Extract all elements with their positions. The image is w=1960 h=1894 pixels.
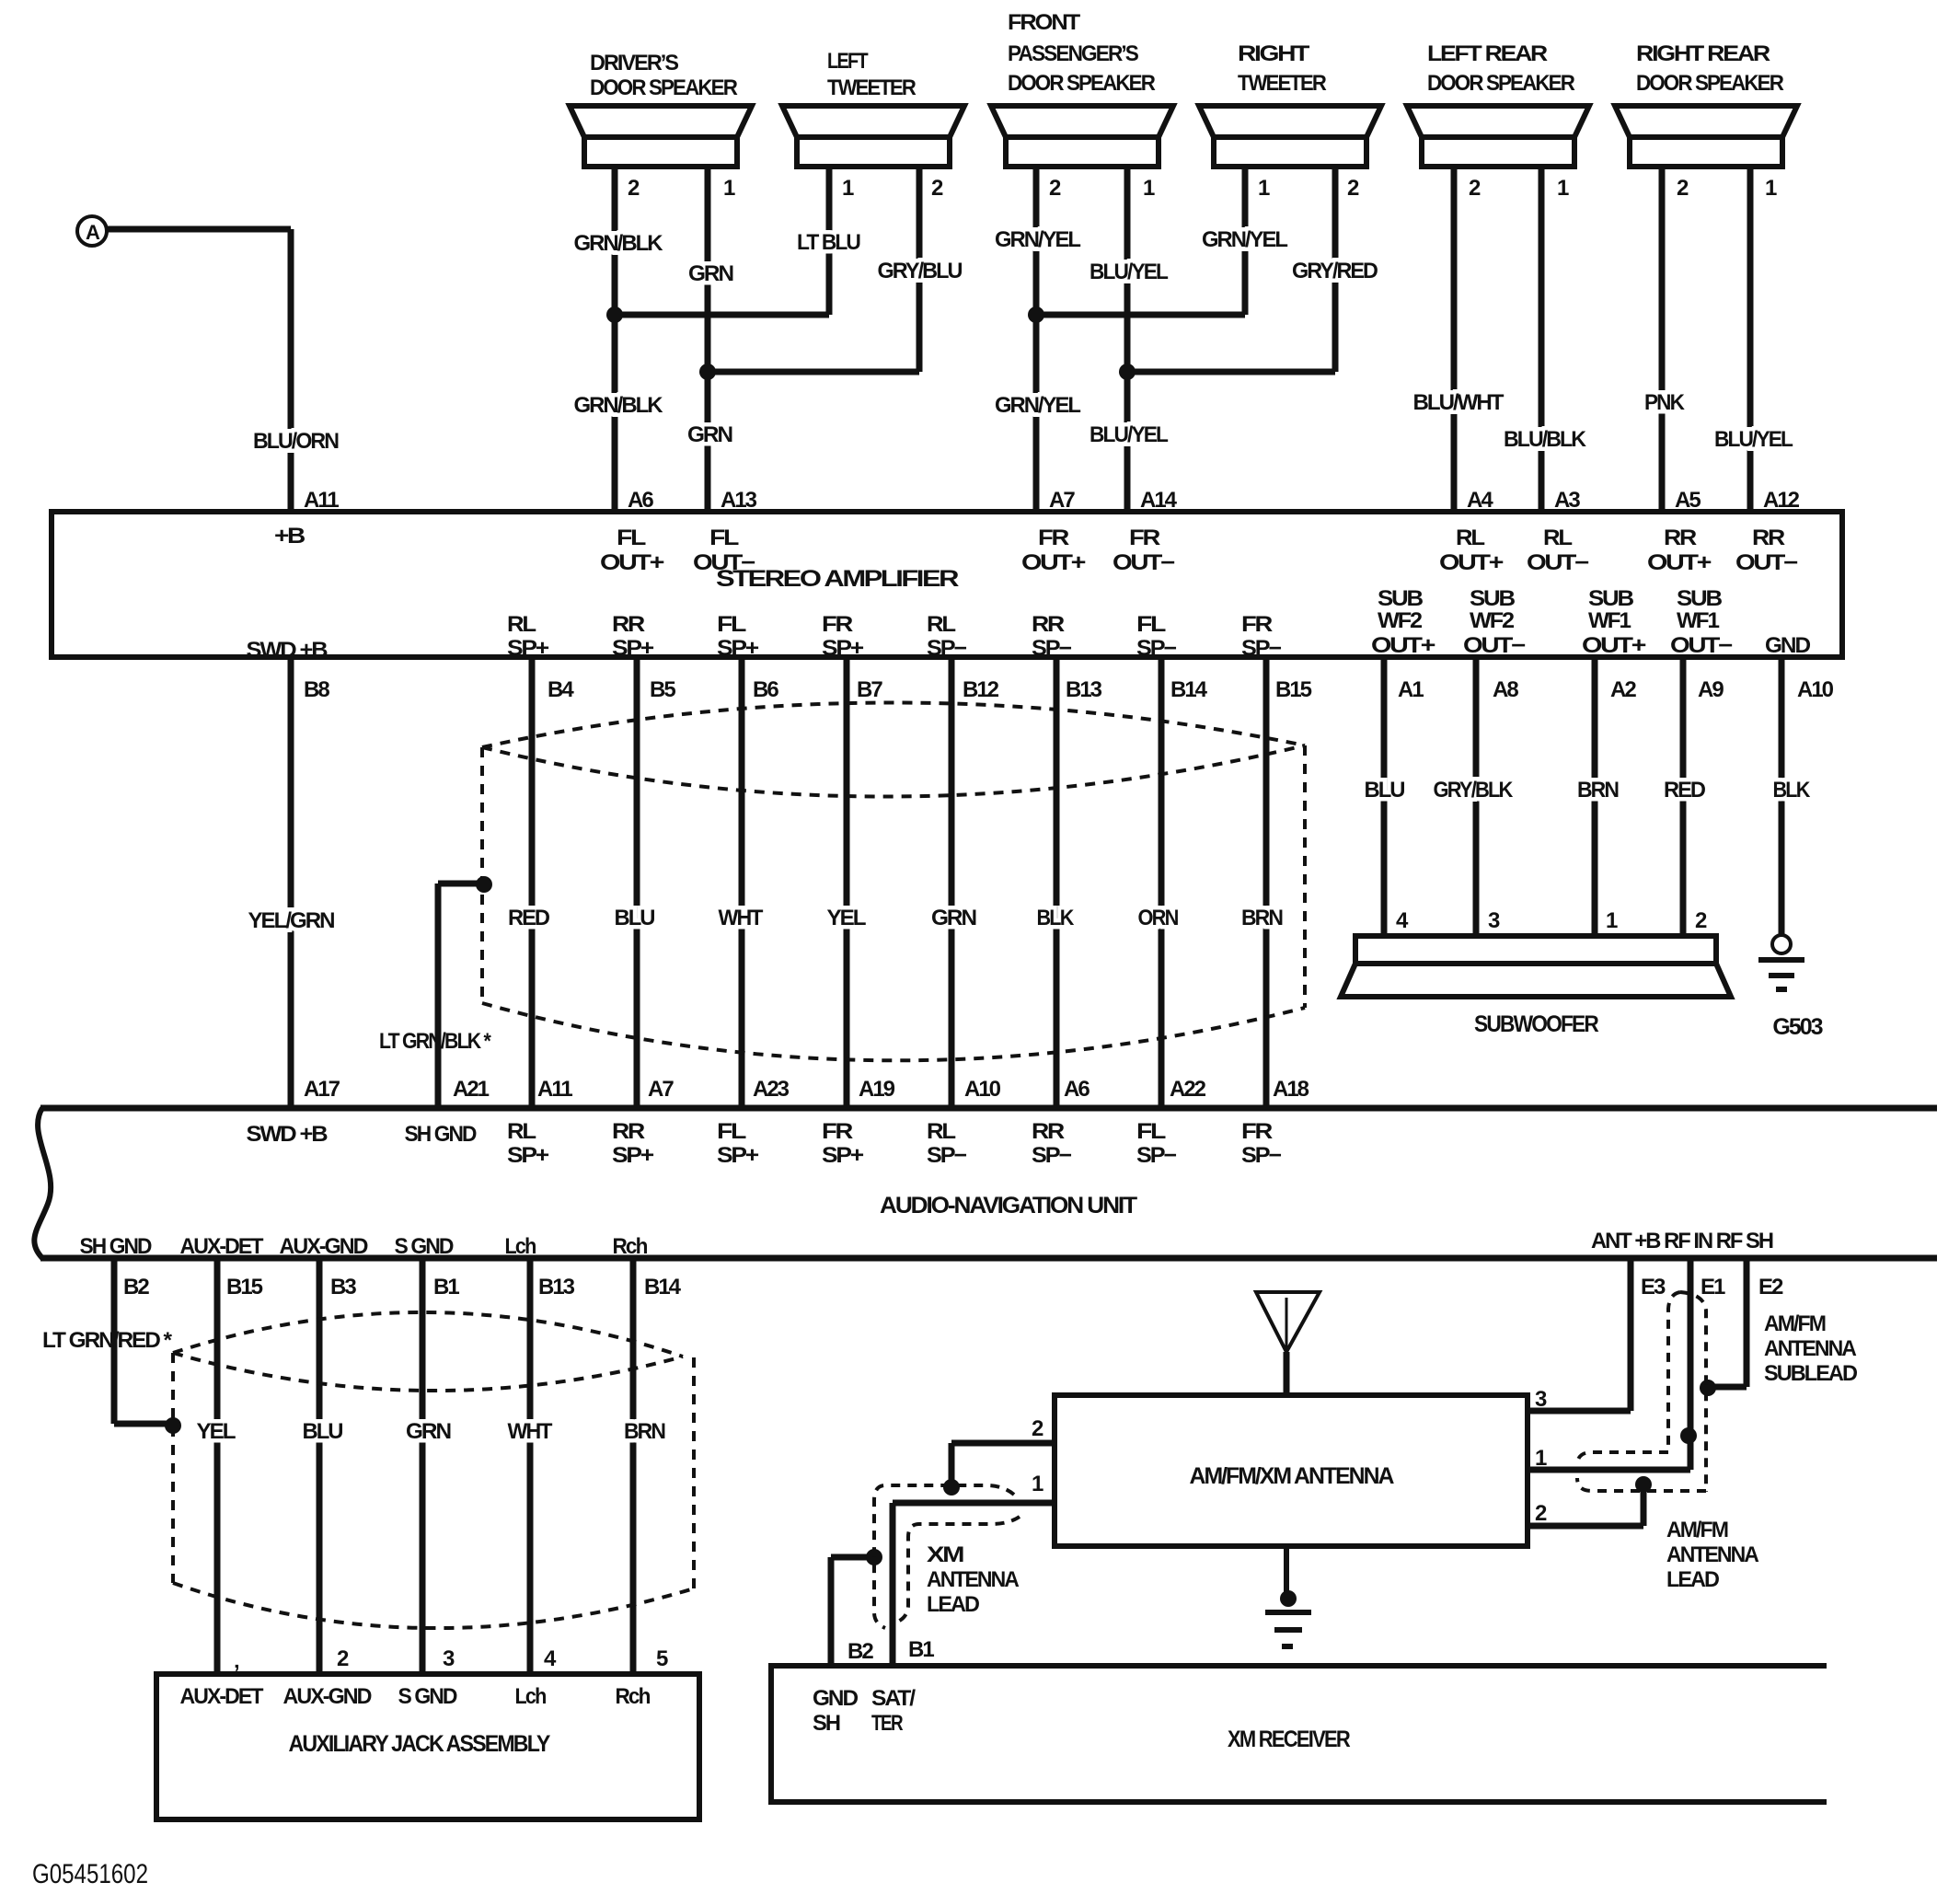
wire SH GND horizontal [114,1421,169,1427]
junction GRN x GRY/BLU [699,364,716,380]
wire GRN/BLK driver pin2 to A6 [612,167,618,512]
svg-text:2: 2 [1469,176,1481,201]
svg-text:SH GND: SH GND [80,1234,153,1259]
antenna left pin2 stub [951,1440,1055,1447]
svg-text:S GND: S GND [395,1234,455,1259]
svg-text:A6: A6 [1064,1077,1090,1102]
AM/FM/XM antenna box [1055,1395,1528,1546]
wire GND SH horizontal [831,1554,870,1561]
svg-text:GRN/BLK: GRN/BLK [574,393,664,418]
svg-text:BRN: BRN [1577,778,1619,803]
wire amp to subwoofer x=1829 [1680,657,1687,936]
svg-text:FL: FL [617,525,646,550]
svg-text:BLU/ORN: BLU/ORN [253,429,339,454]
wire BLU/BLK left rear pin1 to A3 [1539,167,1545,512]
svg-text:SP−: SP− [927,1143,967,1168]
svg-text:B6: B6 [753,677,778,702]
svg-text:ANTENNA: ANTENNA [1764,1336,1857,1361]
svg-text:RL: RL [507,612,536,637]
svg-text:BLU/BLK: BLU/BLK [1504,427,1587,452]
svg-text:RL: RL [927,612,955,637]
svg-text:DOOR SPEAKER: DOOR SPEAKER [1008,71,1156,96]
wire aux x=347 [317,1258,323,1674]
svg-text:SUBWOOFER: SUBWOOFER [1474,1011,1599,1037]
svg-text:ANTENNA: ANTENNA [927,1567,1020,1592]
svg-text:AUX-DET: AUX-DET [180,1234,264,1259]
wire aux x=576 [527,1258,534,1674]
shield cable right side [1303,745,1307,1008]
wire amp B-column x=1376 [1263,657,1270,1108]
svg-text:A3: A3 [1554,488,1580,513]
antenna pin2 stub [1528,1523,1643,1530]
svg-text:B12: B12 [963,677,999,702]
svg-text:RL: RL [1543,525,1572,550]
wire GRY/RED right tweeter pin2 [1332,167,1339,372]
svg-text:SP−: SP− [1241,636,1282,661]
svg-text:S GND: S GND [398,1684,458,1709]
wire BLU/YEL passenger pin1 to A14 [1124,167,1131,512]
svg-text:GRN: GRN [687,422,732,447]
svg-text:A9: A9 [1698,677,1724,702]
svg-text:GRN/YEL: GRN/YEL [995,393,1080,418]
svg-text:5: 5 [656,1646,668,1671]
svg-text:TER: TER [871,1711,903,1736]
svg-text:B2: B2 [847,1639,873,1664]
svg-text:SAT/: SAT/ [871,1686,916,1711]
svg-text:RIGHT: RIGHT [1238,41,1310,66]
wire B1 to antenna pin1 [893,1500,1055,1507]
wire LT GRN/BLK horizontal [438,881,484,887]
svg-text:LT GRN/BLK *: LT GRN/BLK * [379,1029,491,1054]
svg-text:A19: A19 [859,1077,895,1102]
antenna ground [1284,1546,1289,1599]
svg-text:FR: FR [1129,525,1160,550]
svg-text:B8: B8 [304,677,329,702]
wire amp B-column x=806 [739,657,745,1108]
wire E3 ANT +B [1628,1258,1634,1411]
svg-text:GRN: GRN [688,261,733,286]
svg-text:GRN: GRN [931,906,976,930]
wire branch to right tweeter pin2 [1127,369,1335,375]
svg-text:A18: A18 [1273,1077,1309,1102]
svg-text:BLU: BLU [615,906,655,930]
wire amp B-column x=1148 [1054,657,1060,1108]
wire BLU/WHT left rear pin2 to A4 [1451,167,1458,512]
svg-text:A17: A17 [304,1077,340,1102]
svg-text:ANT +B RF IN RF SH: ANT +B RF IN RF SH [1591,1229,1773,1253]
svg-text:DOOR SPEAKER: DOOR SPEAKER [1636,71,1784,96]
wire E2 horizontal [1708,1384,1747,1391]
svg-text:SP+: SP+ [507,636,549,661]
svg-text:1: 1 [1032,1472,1043,1496]
wire GRN/YEL right tweeter pin1 [1242,167,1249,315]
svg-text:OUT+: OUT+ [1439,550,1504,575]
svg-text:BLU: BLU [1365,778,1405,803]
svg-text:GRY/BLK: GRY/BLK [1434,778,1514,803]
subwoofer [1341,936,1731,1037]
shield cable left side [480,747,484,1003]
svg-text:WF2: WF2 [1378,608,1423,633]
svg-text:OUT+: OUT+ [1371,633,1435,658]
svg-text:2: 2 [1049,176,1061,201]
xm antenna lead shield outer [874,1485,1014,1628]
svg-text:DOOR SPEAKER: DOOR SPEAKER [590,75,738,100]
svg-text:Rch: Rch [613,1234,648,1259]
svg-text:A7: A7 [1049,488,1075,513]
svg-text:GRN/BLK: GRN/BLK [574,231,664,256]
svg-text:A1: A1 [1398,677,1424,702]
svg-text:2: 2 [1677,176,1689,201]
svg-text:RR: RR [1664,525,1697,550]
wire SAT/TER B1 [890,1503,896,1666]
svg-text:FR: FR [822,1119,853,1144]
svg-text:FL: FL [717,612,746,637]
svg-text:AM/FM/XM ANTENNA: AM/FM/XM ANTENNA [1190,1463,1395,1489]
svg-text:B3: B3 [330,1275,356,1299]
svg-text:TWEETER: TWEETER [827,75,917,100]
svg-text:OUT−: OUT− [1527,550,1589,575]
svg-text:2: 2 [931,176,943,201]
svg-text:GRN: GRN [406,1419,451,1444]
svg-text:Rch: Rch [616,1684,651,1709]
shield cable bottom arc [482,1003,1305,1060]
audio-nav top edge [40,1105,1937,1112]
svg-text:RED: RED [1664,778,1706,803]
svg-text:PASSENGER’S: PASSENGER’S [1008,41,1139,66]
wire pin2 down to xm shield [949,1443,955,1484]
svg-text:BRN: BRN [624,1419,665,1444]
junction shield drain [476,876,492,893]
svg-text:BRN: BRN [1241,906,1283,930]
sublead shield right [1680,1292,1706,1492]
svg-text:LEAD: LEAD [1666,1567,1720,1592]
svg-text:B7: B7 [857,677,882,702]
svg-text:RR: RR [1032,1119,1065,1144]
svg-text:A2: A2 [1610,677,1636,702]
antenna pin3 stub [1528,1408,1631,1415]
svg-text:SP−: SP− [1136,636,1177,661]
wire GRN/YEL passenger pin2 to A7 [1033,167,1040,512]
aux shield inner arc [173,1353,683,1391]
svg-text:FL: FL [709,525,739,550]
wire amp B-column x=316 [288,657,294,1108]
svg-text:FRONT: FRONT [1008,10,1080,35]
svg-text:RED: RED [508,906,550,930]
svg-text:OUT−: OUT− [1463,633,1526,658]
speaker: LEFT TWEETER [782,49,964,167]
wire amp to subwoofer x=1504 [1381,657,1388,936]
svg-text:A5: A5 [1675,488,1701,513]
wire pin2 to lead shield [1641,1484,1647,1526]
wire LT BLU left tweeter pin1 [826,167,833,315]
junction GRN/BLK x LT BLU [606,306,623,323]
svg-text:ORN: ORN [1138,906,1179,930]
svg-text:A6: A6 [628,488,653,513]
svg-text:SP+: SP+ [612,636,654,661]
svg-text:FR: FR [1241,1119,1273,1144]
junction E2 to sublead shield [1700,1380,1716,1396]
svg-text:SP−: SP− [927,636,967,661]
wire amp B-column x=1262 [1159,657,1165,1108]
wire BLU/YEL right rear pin1 to A12 [1747,167,1754,512]
svg-text:DRIVER’S: DRIVER’S [590,51,679,75]
svg-text:YEL: YEL [197,1419,236,1444]
ground G503 [1758,935,1823,1040]
junction xm shield to antenna pin2 [943,1479,960,1496]
svg-text:1: 1 [1258,176,1270,201]
svg-text:SP−: SP− [1136,1143,1177,1168]
wire amp to subwoofer x=1604 [1473,657,1480,936]
svg-text:WF2: WF2 [1470,608,1515,633]
svg-text:WHT: WHT [719,906,764,930]
svg-text:OUT+: OUT+ [1582,633,1646,658]
svg-text:FL: FL [717,1119,746,1144]
audio-nav bottom edge [40,1255,1937,1262]
svg-text:2: 2 [1347,176,1359,201]
shield cable upper arc [482,702,1305,747]
wire aux x=688 [630,1258,637,1674]
svg-text:SUB: SUB [1470,586,1516,611]
svg-text:LT GRN/RED *: LT GRN/RED * [42,1328,173,1353]
svg-text:WHT: WHT [508,1419,553,1444]
svg-text:B1: B1 [908,1637,934,1662]
svg-text:2: 2 [337,1646,349,1671]
svg-text:GRN/YEL: GRN/YEL [1202,227,1287,252]
svg-text:BLU/WHT: BLU/WHT [1413,390,1505,415]
svg-text:A10: A10 [964,1077,1001,1102]
svg-text:3: 3 [1535,1387,1547,1412]
svg-text:AUX-GND: AUX-GND [283,1684,373,1709]
xm antenna lead shield inner [898,1517,1020,1622]
svg-text:G05451602: G05451602 [32,1859,148,1889]
svg-text:AUXILIARY JACK ASSEMBLY: AUXILIARY JACK ASSEMBLY [289,1731,551,1757]
junction aux shield drain [165,1417,181,1434]
svg-text:A11: A11 [304,488,339,513]
wire amp B-column x=692 [634,657,640,1108]
svg-text:SH GND: SH GND [405,1122,478,1147]
svg-text:TWEETER: TWEETER [1238,71,1327,96]
junction GRN/YEL x GRN/YEL [1028,306,1044,323]
svg-text:A13: A13 [721,488,757,513]
svg-text:A21: A21 [453,1077,490,1102]
speaker: DRIVER&#8217;S DOOR SPEAKER [570,51,752,167]
svg-text:3: 3 [1488,908,1500,933]
svg-text:B14: B14 [644,1275,682,1299]
svg-text:A22: A22 [1170,1077,1206,1102]
wire aux x=459 [420,1258,426,1674]
svg-text:OUT+: OUT+ [1021,550,1086,575]
svg-text:1: 1 [842,176,854,201]
svg-text:1: 1 [1143,176,1155,201]
wire GRN driver pin1 to A13 [705,167,711,512]
aux shield left side [171,1353,175,1583]
junction xm shield drain [866,1549,882,1565]
svg-text:1: 1 [1606,908,1618,933]
svg-text:2: 2 [1032,1416,1043,1441]
svg-text:A7: A7 [648,1077,674,1102]
junction BLU/YEL x GRY/RED [1119,364,1136,380]
svg-text:AUX-DET: AUX-DET [180,1684,264,1709]
svg-text:1: 1 [1557,176,1569,201]
svg-text:SUB: SUB [1677,586,1723,611]
svg-text:B2: B2 [123,1275,149,1299]
svg-text:LEFT REAR: LEFT REAR [1427,41,1548,66]
svg-text:FL: FL [1136,1119,1166,1144]
shield cable inner arc [482,745,1305,797]
svg-text:OUT−: OUT− [1735,550,1798,575]
svg-text:FR: FR [1038,525,1069,550]
svg-text:BLU: BLU [303,1419,343,1444]
svg-text:Lch: Lch [505,1234,536,1259]
svg-text:GRY/BLU: GRY/BLU [878,259,963,283]
svg-text:1: 1 [1535,1446,1547,1471]
svg-text:LT BLU: LT BLU [797,230,860,255]
svg-text:2: 2 [628,176,640,201]
svg-text:B1: B1 [433,1275,459,1299]
svg-text:E3: E3 [1641,1275,1666,1299]
svg-text:ANTENNA: ANTENNA [1666,1542,1759,1567]
wire branch to right tweeter pin1 [1036,312,1245,318]
xm receiver outline [771,1666,1827,1802]
svg-text:A23: A23 [753,1077,790,1102]
svg-text:SWD +B: SWD +B [247,638,329,663]
wire amp B-column x=920 [844,657,850,1108]
svg-text:SH: SH [813,1711,840,1736]
speaker: RIGHT TWEETER [1199,41,1381,167]
speaker: LEFT REAR DOOR SPEAKER [1407,41,1589,167]
svg-text:E1: E1 [1701,1275,1725,1299]
svg-text:A10: A10 [1797,677,1834,702]
svg-text:AM/FM: AM/FM [1666,1518,1728,1542]
node A connector [77,216,107,246]
svg-text:A8: A8 [1493,677,1518,702]
wire branch to left tweeter pin2 [708,369,919,375]
svg-text:SP−: SP− [1032,1143,1072,1168]
auxiliary jack assembly box [156,1674,699,1819]
svg-text:LEFT: LEFT [827,49,869,74]
svg-text:OUT−: OUT− [1113,550,1175,575]
antenna mast [1284,1352,1290,1395]
svg-text:FR: FR [822,612,853,637]
svg-text:SUBLEAD: SUBLEAD [1764,1361,1858,1386]
svg-text:BLU/YEL: BLU/YEL [1714,427,1793,452]
svg-text:1: 1 [723,176,735,201]
svg-text:WF1: WF1 [1588,608,1631,633]
lead shield lower [1577,1478,1706,1491]
svg-text:FL: FL [1136,612,1166,637]
svg-text:WF1: WF1 [1677,608,1720,633]
wire BLU/ORN to A11 [288,229,294,512]
svg-text:A: A [86,221,100,244]
svg-text:YEL/GRN: YEL/GRN [248,908,335,933]
svg-text:+B: +B [274,524,306,549]
wire LT GRN/BLK to A21 [435,883,442,1108]
svg-text:B15: B15 [1275,677,1312,702]
svg-text:4: 4 [1396,908,1409,933]
svg-text:RR: RR [1752,525,1785,550]
svg-text:SP+: SP+ [717,636,759,661]
svg-text:SP+: SP+ [822,636,864,661]
svg-text:Lch: Lch [515,1684,547,1709]
svg-text:RIGHT REAR: RIGHT REAR [1636,41,1770,66]
antenna pin1 stub [1528,1467,1690,1473]
svg-text:SP+: SP+ [717,1143,759,1168]
wire GRY/BLU left tweeter pin2 [917,167,923,372]
svg-text:SUB: SUB [1378,586,1424,611]
svg-text:BLU/YEL: BLU/YEL [1090,260,1168,284]
antenna symbol [1256,1292,1320,1352]
svg-text:RR: RR [612,612,645,637]
svg-text:1: 1 [1765,176,1777,201]
svg-text:PNK: PNK [1644,390,1686,415]
svg-text:XM RECEIVER: XM RECEIVER [1228,1727,1351,1752]
svg-text:B14: B14 [1170,677,1208,702]
svg-text:AUDIO-NAVIGATION UNIT: AUDIO-NAVIGATION UNIT [880,1193,1137,1218]
svg-text:A12: A12 [1763,488,1800,513]
wire amp B-column x=578 [529,657,536,1108]
junction E1 shield [1680,1427,1697,1444]
wire branch to left tweeter pin1 [615,312,829,318]
wire SH GND B2 [111,1258,118,1424]
svg-text:DOOR SPEAKER: DOOR SPEAKER [1427,71,1575,96]
wire BLK to G503 [1779,657,1785,935]
svg-text:A14: A14 [1140,488,1178,513]
svg-text:AUX-GND: AUX-GND [280,1234,369,1259]
svg-text:FR: FR [1241,612,1273,637]
svg-text:E2: E2 [1758,1275,1783,1299]
speaker: RIGHT REAR DOOR SPEAKER [1615,41,1797,167]
wire GND SH [828,1557,835,1666]
svg-text:AM/FM: AM/FM [1764,1311,1826,1336]
svg-text:2: 2 [1695,908,1707,933]
svg-text:GRN/YEL: GRN/YEL [995,227,1080,252]
aux shield bottom arc [173,1583,694,1628]
wire aux x=236 [214,1258,221,1674]
svg-text:SP−: SP− [1032,636,1072,661]
svg-text:XM: XM [927,1542,963,1567]
svg-text:A11: A11 [537,1077,572,1102]
wire E2 RF SH [1744,1258,1750,1387]
svg-text:GND: GND [1765,633,1811,658]
svg-text:B15: B15 [226,1275,263,1299]
wire from node A [107,226,291,233]
svg-text:SWD +B: SWD +B [247,1122,329,1147]
svg-text:RR: RR [612,1119,645,1144]
svg-text:OUT+: OUT+ [600,550,664,575]
audio-nav torn edge [34,1108,51,1258]
svg-text:B4: B4 [548,677,574,702]
svg-text:OUT−: OUT− [1670,633,1733,658]
svg-text:SP+: SP+ [822,1143,864,1168]
svg-text:G503: G503 [1772,1014,1822,1040]
svg-text:B13: B13 [538,1275,575,1299]
svg-text:OUT−: OUT− [693,550,755,575]
svg-text:OUT+: OUT+ [1647,550,1712,575]
svg-text:SP−: SP− [1241,1143,1282,1168]
svg-text:SP+: SP+ [507,1143,549,1168]
svg-text:BLK: BLK [1037,906,1075,930]
svg-text:A4: A4 [1467,488,1493,513]
aux shield upper arc [173,1312,683,1357]
svg-text:4: 4 [544,1646,557,1671]
wire amp to subwoofer x=1733 [1592,657,1598,936]
stereo amplifier box [52,512,1842,657]
lead shield upper [1577,1452,1668,1465]
svg-text:YEL: YEL [827,906,866,930]
svg-text:GRY/RED: GRY/RED [1292,259,1378,283]
svg-text:BLU/YEL: BLU/YEL [1090,422,1168,447]
wire E1 RF IN [1688,1258,1694,1470]
